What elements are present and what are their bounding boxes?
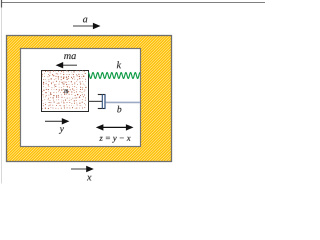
label m: [64, 89, 68, 93]
arrow y (mass displacement, right): [45, 118, 69, 124]
piston rod from mass: [88, 100, 102, 102]
left page edge top tick: [1, 0, 3, 8]
frame / case hatched wall: [6, 35, 172, 162]
top rule: [2, 2, 265, 4]
label x: [87, 176, 91, 181]
label b: [117, 106, 121, 113]
label ma: [64, 54, 76, 59]
double arrow z (relative displacement): [96, 124, 134, 130]
spring k: [88, 73, 140, 79]
label a: [83, 18, 87, 23]
arrow x (case displacement, right): [71, 166, 94, 172]
cylinder top wall: [98, 94, 106, 96]
left page edge faint line: [1, 2, 3, 184]
damper b: [88, 94, 140, 109]
label k: [117, 61, 121, 68]
label z = y - x: [99, 137, 130, 143]
piston plate: [101, 94, 103, 109]
cylinder bottom wall: [98, 108, 106, 110]
arrow a (frame acceleration, right): [73, 23, 101, 29]
label y: [59, 127, 64, 133]
arrow ma (inertial force, left): [56, 62, 77, 68]
cylinder end plate: [104, 94, 106, 109]
frame inner border: [21, 49, 141, 147]
frame outer border: [7, 36, 172, 162]
rod to case wall: [106, 101, 140, 103]
mass block m (stippled): [42, 70, 89, 111]
